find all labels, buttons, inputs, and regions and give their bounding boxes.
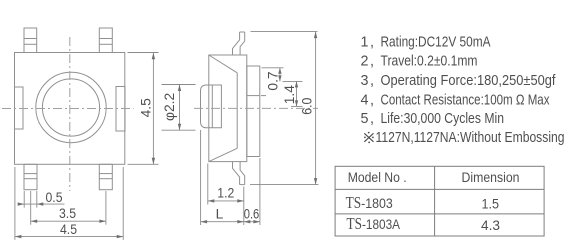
dim phi2.2: dimension line [179, 85, 181, 131]
svg-text:TS-1803: TS-1803 [346, 193, 393, 212]
dim 0.7: dimension line [279, 68, 281, 82]
side view: cover top chamfer diagonal [209, 55, 237, 73]
dim 4.5 bottom: extension lines [14, 167, 16, 240]
top view: pin (top-right lead) [99, 28, 112, 53]
side view: stem hole edge [211, 85, 213, 128]
dim 0.6: extension line (base right) [259, 158, 261, 225]
svg-text:Travel:0.2±0.1mm: Travel:0.2±0.1mm [381, 54, 478, 70]
top view: button inner circle [42, 79, 99, 136]
dim L / 0.6: dimension line [201, 221, 260, 223]
spec list [361, 35, 565, 147]
dim 3.5 arrows [31, 220, 38, 223]
dim 4.5 bottom arrows [15, 235, 22, 238]
dim phi2.2: extension lines [162, 84, 196, 86]
svg-text:5: 5 [361, 111, 369, 127]
dim 4.5 right arrows [152, 53, 155, 60]
top view: right side notch [116, 87, 125, 132]
side view: base internal line [247, 95, 260, 97]
top view: switch body outline [15, 53, 125, 165]
reference mark (kome jirushi) [364, 133, 373, 142]
svg-text:4: 4 [361, 93, 369, 109]
dim 6.0 arrows [314, 32, 317, 38]
top view: button outer circle [36, 72, 106, 142]
dim 0.7: extension line [262, 67, 284, 69]
svg-text:6.0: 6.0 [299, 97, 314, 114]
side view: horizontal centerline [194, 107, 318, 109]
side view: body rectangle [209, 55, 247, 162]
svg-text:3: 3 [361, 73, 369, 89]
top view: vertical centerline [69, 37, 71, 191]
svg-text:Life:30,000 Cycles Min: Life:30,000 Cycles Min [381, 111, 505, 127]
svg-text:1.5: 1.5 [482, 197, 500, 213]
svg-text:,: , [370, 35, 374, 51]
table header separator [335, 188, 544, 190]
dim 6.0: extension lines [251, 31, 318, 33]
dim phi2.2 arrows [178, 85, 181, 92]
svg-text:4.5: 4.5 [139, 98, 154, 118]
svg-text:0.6: 0.6 [244, 206, 260, 221]
svg-text:1.2: 1.2 [217, 186, 234, 201]
svg-text:Rating:DC12V 50mA: Rating:DC12V 50mA [381, 35, 491, 51]
side view: stem (button) [201, 85, 222, 128]
svg-text:φ2.2: φ2.2 [162, 93, 177, 121]
dim 3.5: extension lines [30, 191, 32, 225]
side view: bottom lead [233, 162, 240, 185]
side view: cover inner vertical edge [236, 73, 238, 149]
dim 1.2: dimension line [208, 200, 244, 202]
side view: cover bottom chamfer diagonal [209, 148, 237, 161]
svg-text:,: , [370, 93, 374, 109]
svg-text:4.3: 4.3 [481, 218, 500, 234]
dim 0.5: extension lines [23, 191, 25, 208]
top view: pin (bottom-right lead) [99, 164, 112, 189]
dim 0.5 arrows (outside, pointing inward) [18, 202, 25, 205]
dim L arrows [201, 220, 208, 223]
table column divider [434, 166, 436, 236]
side view: top lead [233, 32, 240, 55]
dim 6.0: dimension line [315, 32, 317, 185]
svg-text:1.4: 1.4 [282, 85, 297, 105]
svg-text:Dimension: Dimension [462, 170, 520, 186]
svg-text:Contact Resistance:100m Ω Max: Contact Resistance:100m Ω Max [381, 93, 550, 109]
side view: base rectangle [247, 66, 260, 157]
svg-text:1127N,1127NA:Without Embossing: 1127N,1127NA:Without Embossing [376, 130, 565, 146]
svg-text:Model No .: Model No . [348, 170, 407, 186]
svg-text:Operating Force:180,250±50gf: Operating Force:180,250±50gf [381, 73, 556, 89]
svg-text:4.5: 4.5 [60, 222, 77, 237]
table frame [335, 166, 544, 236]
dim 1.4: extension lines [283, 80, 303, 82]
svg-text:2: 2 [361, 54, 369, 70]
svg-text:0.5: 0.5 [46, 190, 63, 205]
svg-text:TS-1803A: TS-1803A [347, 214, 401, 233]
dim 4.5 bottom: dimension line [15, 236, 123, 238]
svg-text:,: , [370, 73, 374, 89]
dim 3.5: dimension line [31, 220, 106, 222]
dim 0.5: dimension line [18, 203, 65, 205]
dim 4.5 (right, vertical): dimension line [152, 53, 154, 165]
svg-text:3.5: 3.5 [59, 206, 76, 221]
svg-text:1: 1 [361, 35, 369, 51]
top view: pin (bottom-left lead) [24, 164, 37, 189]
dim 0.6 arrows [244, 220, 251, 223]
svg-text:0.7: 0.7 [266, 71, 281, 90]
dim 4.5 (right, vertical): extension lines [128, 52, 159, 54]
top view: pin (top-left lead) [24, 28, 37, 53]
top view: left side notch [15, 87, 24, 129]
top view: horizontal centerline [2, 108, 134, 110]
dim 1.4 arrows [295, 81, 298, 87]
table row separator [335, 213, 544, 215]
dim 1.2: extension lines [207, 164, 209, 205]
svg-text:,: , [370, 54, 374, 70]
dim L: extension line (stem tip) [200, 130, 202, 225]
dim 0.7 arrows [278, 68, 281, 74]
dim 1.2 arrows [208, 199, 215, 202]
svg-text:L: L [216, 206, 224, 221]
dim 1.4: dimension line [296, 81, 298, 106]
svg-text:,: , [370, 111, 374, 127]
